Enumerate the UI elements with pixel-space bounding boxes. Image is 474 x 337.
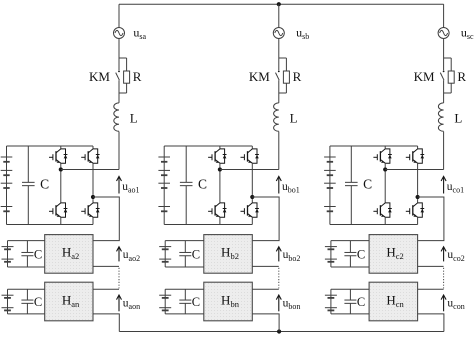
- transistor S2 phase c (IGBT with antiparallel diode): [373, 203, 391, 217]
- wire to inductor: [278, 93, 280, 103]
- wire H-bridge top rail: [164, 145, 252, 147]
- battery stack, H-bridge 1 phase c: [324, 146, 336, 225]
- wire midpoint to lower-left collector: [60, 172, 62, 203]
- wire cell2 bottom rail: [331, 266, 369, 268]
- transistor S2 phase a (IGBT with antiparallel diode): [49, 203, 67, 217]
- wire celln top rail: [165, 288, 204, 290]
- H-bridge cell Hb2: [204, 235, 253, 274]
- wire celln top rail: [8, 288, 45, 290]
- wire celln output down to neutral bus: [418, 314, 444, 332]
- resistor R phase b: [283, 58, 289, 93]
- AC source usb: [273, 28, 284, 39]
- wire left leg to midpoint: [384, 163, 386, 167]
- arrow uaon: [117, 295, 122, 311]
- battery stack, cell Hbn: [159, 289, 171, 314]
- svg-text:C: C: [34, 248, 42, 262]
- wire lower-left emitter to rail: [60, 217, 62, 224]
- wire branch rejoin bottom: [279, 92, 287, 94]
- wire to inductor: [443, 93, 445, 103]
- wire output: right midpoint down to cell 2: [252, 197, 279, 241]
- wire H-bridge top rail: [330, 145, 418, 147]
- resistor R phase a: [124, 58, 130, 93]
- wire right leg to midpoint: [92, 163, 94, 195]
- wire output: right midpoint down to cell 2: [93, 197, 119, 241]
- capacitor C, cell Ha2: [21, 241, 33, 267]
- wire dotted continuation (cells 3..n-1): [278, 268, 280, 289]
- wire top bus to source usb: [278, 4, 280, 27]
- battery stack, cell Han: [2, 289, 14, 314]
- transistor S3 phase c (IGBT with antiparallel diode): [406, 149, 424, 163]
- wire right leg collector: [92, 146, 94, 149]
- wire branch split top: [444, 57, 452, 59]
- contactor KM phase b: [276, 58, 280, 93]
- transistor S2 phase b (IGBT with antiparallel diode): [208, 203, 226, 217]
- wire branch rejoin bottom: [119, 92, 127, 94]
- wire lower-right emitter to rail: [417, 217, 419, 224]
- capacitor C, H-bridge 1 phase c: [345, 146, 358, 225]
- wire right leg to midpoint: [417, 163, 419, 195]
- contactor KM phase a: [116, 58, 120, 93]
- AC source usa: [114, 28, 125, 39]
- node right leg midpoint phase a: [91, 195, 95, 199]
- capacitor C, cell Hb2: [179, 241, 191, 267]
- H-bridge cell Hbn: [204, 282, 253, 321]
- capacitor C, cell Hc2: [344, 241, 356, 267]
- wire top bus to source usc: [443, 4, 445, 27]
- wire branch split top: [119, 57, 127, 59]
- capacitor C, H-bridge 1 phase a: [22, 146, 35, 225]
- wire celln top terminal stub: [252, 288, 278, 290]
- svg-text:C: C: [40, 176, 49, 191]
- inductor L phase a: [114, 103, 119, 131]
- wire cell2 top rail: [331, 240, 369, 242]
- transistor S4 phase b (IGBT with antiparallel diode): [241, 203, 259, 217]
- wire celln output down to neutral bus: [252, 314, 279, 332]
- wire midpoint to lower-left collector: [219, 172, 221, 203]
- wire left leg collector: [60, 146, 62, 149]
- wire lower-left emitter to rail: [219, 217, 221, 224]
- wire dotted continuation (cells 3..n-1): [443, 268, 445, 289]
- battery stack, cell Hb2: [159, 241, 171, 267]
- wire midpoint to lower-right collector: [251, 199, 253, 203]
- battery stack, cell Ha2: [2, 241, 14, 267]
- arrow uco2: [441, 247, 446, 262]
- wire right leg collector: [251, 146, 253, 149]
- arrow ubon: [276, 295, 281, 311]
- arrow ubo1: [276, 176, 281, 193]
- transistor S1 phase c (IGBT with antiparallel diode): [373, 149, 391, 163]
- H-bridge cell Ha2: [45, 235, 93, 274]
- wire input: inductor to left midpoint: [220, 169, 279, 171]
- capacitor C, cell Hbn: [179, 289, 191, 314]
- transistor S1 phase a (IGBT with antiparallel diode): [49, 149, 67, 163]
- svg-text:R: R: [293, 69, 302, 84]
- junction top bus / phase b: [277, 2, 281, 6]
- arrow ubo2: [276, 247, 281, 262]
- arrow uao1: [117, 176, 122, 193]
- svg-text:L: L: [290, 111, 298, 126]
- wire top bus to source usa: [118, 4, 120, 27]
- svg-text:C: C: [357, 295, 365, 309]
- arrow uao2: [117, 247, 122, 262]
- wire inductor to H-bridge input: [443, 132, 445, 170]
- wire cell2 bottom terminal stub: [93, 265, 119, 267]
- svg-text:C: C: [192, 248, 200, 262]
- inductor L phase b: [274, 103, 279, 131]
- wire midpoint to lower-left collector: [384, 172, 386, 203]
- wire top AC bus: [119, 3, 444, 5]
- svg-text:R: R: [133, 69, 142, 84]
- wire cell2 top rail: [165, 240, 204, 242]
- node left leg midpoint phase b: [218, 167, 222, 171]
- wire celln top terminal stub: [418, 288, 444, 290]
- node right leg midpoint phase b: [250, 195, 254, 199]
- svg-text:KM: KM: [89, 69, 110, 84]
- wire lower-right emitter to rail: [92, 217, 94, 224]
- svg-text:C: C: [198, 176, 207, 191]
- wire to inductor: [118, 93, 120, 103]
- wire inductor to H-bridge input: [118, 132, 120, 170]
- battery stack, H-bridge 1 phase b: [158, 146, 170, 225]
- svg-text:L: L: [130, 111, 138, 126]
- wire left leg to midpoint: [219, 163, 221, 167]
- transistor S3 phase a (IGBT with antiparallel diode): [81, 149, 99, 163]
- svg-text:R: R: [457, 69, 466, 84]
- svg-text:L: L: [454, 111, 462, 126]
- arrow ucon: [441, 295, 446, 311]
- svg-text:KM: KM: [414, 69, 435, 84]
- wire output: right midpoint down to cell 2: [418, 197, 444, 241]
- contactor KM phase c: [440, 58, 444, 93]
- wire cell2 bottom rail: [165, 266, 204, 268]
- resistor R phase c: [448, 58, 454, 93]
- wire midpoint to lower-right collector: [92, 199, 94, 203]
- wire branch rejoin bottom: [444, 92, 452, 94]
- wire right leg to midpoint: [251, 163, 253, 195]
- battery stack, cell Hcn: [325, 289, 337, 314]
- node left leg midpoint phase c: [383, 167, 387, 171]
- wire celln bottom rail: [331, 313, 369, 315]
- transistor S1 phase b (IGBT with antiparallel diode): [208, 149, 226, 163]
- svg-text:C: C: [363, 176, 372, 191]
- svg-text:KM: KM: [249, 69, 270, 84]
- wire lower-left emitter to rail: [384, 217, 386, 224]
- capacitor C, H-bridge 1 phase b: [180, 146, 193, 225]
- node left leg midpoint phase a: [59, 167, 63, 171]
- wire midpoint to lower-right collector: [417, 199, 419, 203]
- svg-text:C: C: [192, 295, 200, 309]
- wire source to KM/R branch: [118, 39, 120, 59]
- arrow uco1: [441, 176, 446, 193]
- wire branch split top: [279, 57, 287, 59]
- wire celln output down to neutral bus: [93, 314, 119, 332]
- wire H-bridge top rail: [7, 145, 94, 147]
- wire celln bottom rail: [165, 313, 204, 315]
- wire input: inductor to left midpoint: [385, 169, 443, 171]
- wire source to KM/R branch: [443, 39, 445, 59]
- wire source to KM/R branch: [278, 39, 280, 59]
- wire cell2 bottom terminal stub: [418, 265, 444, 267]
- battery stack, cell Hc2: [325, 241, 337, 267]
- H-bridge cell Hcn: [369, 282, 418, 321]
- H-bridge cell Hc2: [369, 235, 418, 274]
- wire celln top terminal stub: [93, 288, 119, 290]
- wire celln top rail: [331, 288, 369, 290]
- wire bottom neutral bus: [119, 331, 444, 333]
- wire input: inductor to left midpoint: [61, 169, 119, 171]
- wire right leg collector: [417, 146, 419, 149]
- wire left leg collector: [384, 146, 386, 149]
- wire H-bridge bottom rail: [7, 224, 94, 226]
- svg-text:C: C: [34, 295, 42, 309]
- capacitor C, cell Han: [21, 289, 33, 314]
- wire celln bottom rail: [8, 313, 45, 315]
- transistor S4 phase a (IGBT with antiparallel diode): [81, 203, 99, 217]
- wire lower-right emitter to rail: [251, 217, 253, 224]
- wire H-bridge bottom rail: [164, 224, 252, 226]
- inductor L phase c: [438, 103, 443, 131]
- battery stack, H-bridge 1 phase a: [1, 146, 13, 225]
- H-bridge cell Han: [45, 282, 93, 321]
- wire dotted continuation (cells 3..n-1): [118, 268, 120, 289]
- node right leg midpoint phase c: [416, 195, 420, 199]
- wire cell2 bottom terminal stub: [252, 265, 278, 267]
- wire cell2 top rail: [8, 240, 45, 242]
- wire inductor to H-bridge input: [278, 132, 280, 170]
- wire left leg to midpoint: [60, 163, 62, 167]
- junction bottom bus / phase b: [277, 329, 281, 333]
- transistor S4 phase c (IGBT with antiparallel diode): [406, 203, 424, 217]
- svg-text:C: C: [357, 248, 365, 262]
- AC source usc: [438, 28, 449, 39]
- wire left leg collector: [219, 146, 221, 149]
- capacitor C, cell Hcn: [344, 289, 356, 314]
- wire H-bridge bottom rail: [330, 224, 418, 226]
- transistor S3 phase b (IGBT with antiparallel diode): [241, 149, 259, 163]
- wire cell2 bottom rail: [8, 266, 45, 268]
